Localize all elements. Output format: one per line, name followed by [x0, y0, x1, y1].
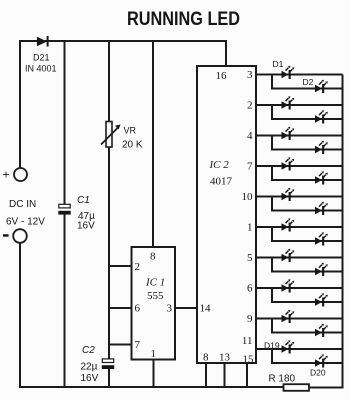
wire pin7 stub — [109, 344, 132, 346]
LED (row 4, col 1) — [282, 157, 295, 170]
terminal + — [14, 168, 27, 181]
IC U1 555 — [132, 247, 176, 360]
LED (row 9, col 1) — [282, 310, 295, 323]
wire pin 4 to bus — [256, 135, 343, 137]
LED D1 — [282, 66, 295, 79]
wire branch drop row 1 — [272, 75, 343, 89]
capacitor C2 — [102, 359, 114, 369]
capacitor C1 — [58, 204, 70, 214]
svg-text:RUNNING LED: RUNNING LED — [127, 8, 240, 30]
svg-text:4: 4 — [247, 130, 253, 142]
wire IC1 pin8 drop — [152, 41, 154, 247]
LED D2 — [315, 80, 328, 93]
LED (row 6, col 2) — [315, 232, 328, 245]
svg-text:11: 11 — [242, 335, 253, 347]
IC U2 4017 — [197, 66, 256, 363]
wire branch drop row 2 — [272, 105, 343, 119]
LED D20 — [315, 354, 328, 367]
wire C2 to rail — [108, 369, 110, 387]
potentiometer VR — [101, 122, 121, 148]
svg-text:4017: 4017 — [210, 176, 233, 188]
wire pin2 stub — [109, 265, 132, 267]
wire branch drop row 5 — [272, 197, 343, 211]
svg-text:20 K: 20 K — [122, 140, 143, 151]
svg-text:IC 2: IC 2 — [209, 159, 230, 171]
wire bottom rail — [19, 386, 284, 388]
svg-text:R 180: R 180 — [269, 374, 296, 385]
svg-text:6: 6 — [247, 283, 253, 295]
svg-text:8: 8 — [150, 251, 156, 263]
LED (row 5, col 1) — [282, 188, 295, 201]
wire VR branch top — [108, 41, 110, 122]
wire pin6 stub — [109, 307, 132, 309]
svg-text:D20: D20 — [310, 368, 326, 378]
wire IC1 pin3 to IC2 pin14 — [175, 307, 197, 309]
LED (row 2, col 2) — [315, 110, 328, 123]
svg-text:C2: C2 — [82, 345, 95, 356]
svg-text:6: 6 — [135, 303, 141, 315]
svg-text:7: 7 — [135, 339, 141, 351]
wire pin 5 to bus — [256, 257, 343, 259]
wire pin 1 to bus — [256, 226, 343, 228]
wire IC2 pin15 drop — [246, 363, 248, 387]
LED (row 4, col 2) — [315, 171, 328, 184]
wire IC1 pin1 drop — [153, 359, 155, 387]
svg-text:5: 5 — [247, 252, 253, 264]
svg-text:IC 1: IC 1 — [145, 277, 165, 289]
wire C1 branch top — [64, 41, 66, 205]
svg-text:D19: D19 — [264, 341, 280, 351]
LED (row 5, col 2) — [315, 202, 328, 215]
wire branch drop row 9 — [272, 319, 343, 333]
terminal - — [13, 229, 27, 243]
LED (row 3, col 1) — [282, 127, 295, 140]
wire branch drop row 4 — [272, 166, 343, 180]
wire pin 2 to bus — [256, 104, 343, 106]
svg-text:10: 10 — [242, 191, 254, 203]
wire C1 branch bottom — [64, 215, 66, 388]
svg-text:+: + — [3, 168, 10, 182]
wire pin 6 to bus — [256, 287, 343, 289]
LED (row 8, col 2) — [315, 293, 328, 306]
svg-text:VR: VR — [124, 126, 137, 136]
svg-text:1: 1 — [151, 348, 157, 360]
svg-text:3: 3 — [247, 69, 253, 81]
svg-text:8: 8 — [203, 352, 209, 364]
svg-text:1: 1 — [247, 222, 253, 234]
svg-text:D2: D2 — [303, 77, 314, 87]
svg-text:16V: 16V — [81, 373, 99, 384]
wire pin 3 to bus — [256, 74, 343, 76]
wire branch drop row 6 — [272, 227, 343, 241]
svg-text:C1: C1 — [77, 195, 90, 206]
wire resistor to bus — [309, 387, 343, 389]
LED (row 9, col 2) — [315, 324, 328, 337]
svg-text:16: 16 — [216, 70, 228, 82]
wire pin 11 to bus — [256, 348, 343, 350]
LED (row 6, col 1) — [282, 218, 295, 231]
LED (row 7, col 2) — [315, 263, 328, 276]
wire pin 10 to bus — [256, 196, 343, 198]
svg-text:DC IN: DC IN — [9, 199, 36, 210]
wire branch drop row 7 — [272, 258, 343, 272]
wire IC2 pin8 drop — [205, 363, 207, 387]
svg-text:7: 7 — [247, 161, 253, 173]
svg-text:2: 2 — [135, 261, 141, 273]
svg-text:6V - 12V: 6V - 12V — [6, 217, 45, 228]
wire VR to C2 — [108, 147, 110, 360]
LED D19 — [282, 340, 295, 353]
svg-text:9: 9 — [247, 313, 253, 325]
wire right bus — [342, 75, 344, 389]
wire pin 9 to bus — [256, 318, 343, 320]
wire branch drop row 3 — [272, 136, 343, 150]
wire branch drop row 8 — [272, 288, 343, 302]
wire pin 7 to bus — [256, 165, 343, 167]
svg-text:D1: D1 — [273, 59, 284, 69]
LED (row 2, col 1) — [282, 96, 295, 109]
wire IC2 pin13 drop — [224, 363, 226, 387]
svg-text:555: 555 — [147, 290, 164, 302]
wire top rail — [20, 41, 226, 168]
svg-text:14: 14 — [200, 303, 212, 315]
svg-text:D21: D21 — [33, 53, 50, 63]
LED (row 7, col 1) — [282, 249, 295, 262]
svg-text:15: 15 — [243, 354, 255, 366]
LED (row 8, col 1) — [282, 279, 295, 292]
diode D21 — [37, 36, 49, 47]
svg-text:IN 4001: IN 4001 — [25, 64, 57, 74]
wire minus terminal down — [19, 243, 21, 387]
svg-text:3: 3 — [167, 303, 173, 315]
svg-text:16V: 16V — [77, 221, 95, 232]
svg-text:22µ: 22µ — [81, 362, 98, 373]
resistor R 180 — [284, 384, 310, 391]
LED (row 3, col 2) — [315, 141, 328, 154]
svg-text:2: 2 — [247, 100, 253, 112]
wire branch drop row 10 — [272, 349, 343, 363]
svg-text:13: 13 — [219, 352, 231, 364]
